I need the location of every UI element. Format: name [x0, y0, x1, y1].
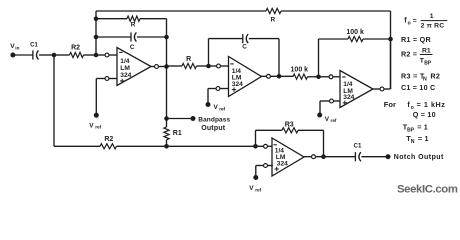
node U2 inverting tap: [206, 64, 211, 69]
op-amp U2 1/4 LM324: [229, 57, 262, 97]
svg-text:ref: ref: [95, 125, 101, 130]
U1 output terminal: [155, 65, 159, 69]
svg-text:ref: ref: [331, 118, 337, 123]
wire R3 row left: [256, 129, 283, 131]
resistor R (outer feedback): [266, 8, 281, 13]
wire stub U4 minus: [268, 145, 272, 147]
Vref terminal U2: [206, 102, 211, 107]
node input junction: [52, 53, 57, 58]
U2 output terminal: [267, 74, 271, 78]
wire U1 output: [151, 66, 154, 68]
U3 noninverting input terminal: [330, 99, 334, 103]
svg-text:Notch Output: Notch Output: [394, 154, 444, 161]
node C row right: [164, 35, 169, 40]
svg-text:o: o: [408, 20, 411, 26]
resistor R2 (summing): [100, 144, 117, 149]
svg-text:R1 = QR: R1 = QR: [401, 35, 431, 44]
wire U1out to R: [167, 65, 183, 67]
U3 output terminal: [380, 87, 384, 91]
node R1 bottom: [164, 144, 169, 149]
svg-text:= 1: = 1: [418, 134, 429, 143]
wire U3 plus to Vref: [320, 100, 329, 102]
wire U2 output: [262, 75, 267, 77]
svg-text:R: R: [131, 22, 136, 29]
op-amp U3 1/4 LM324: [340, 71, 373, 108]
wire left feedback vertical: [95, 11, 97, 56]
svg-text:100 k: 100 k: [291, 67, 309, 74]
svg-text:R: R: [186, 56, 191, 63]
wire stub U3 minus: [333, 76, 340, 78]
wire bottom rail left: [54, 145, 100, 147]
wire stub U1 plus: [109, 78, 117, 80]
wire R3 feedback up: [255, 130, 257, 146]
U2 inverting input terminal: [217, 64, 221, 68]
svg-text:C: C: [242, 43, 247, 50]
svg-text:BP: BP: [424, 60, 432, 66]
svg-text:100 k: 100 k: [346, 29, 364, 36]
capacitor C (U2 feedback): [242, 34, 244, 43]
svg-text:R2 =: R2 =: [401, 50, 417, 59]
node U3 inverting tap: [316, 75, 321, 80]
wire C1 to notch terminal: [361, 156, 386, 158]
node at input row: [94, 53, 99, 58]
svg-text:R1: R1: [422, 47, 431, 54]
wire R to U2 minus node: [197, 65, 209, 67]
svg-text:Q = 10: Q = 10: [413, 110, 436, 119]
wire 100k to U3 node: [308, 76, 319, 78]
resistor R1: [164, 127, 169, 140]
svg-text:BP: BP: [407, 127, 415, 133]
wire U1 feedback C row left: [96, 36, 131, 38]
svg-text:= 1 kHz: = 1 kHz: [417, 100, 446, 109]
U1 inverting input terminal: [105, 53, 109, 57]
U4 output terminal: [312, 155, 316, 159]
Notch output terminal: [386, 154, 391, 159]
resistor R2 (input): [70, 52, 84, 57]
wire input node down: [53, 55, 55, 146]
wire node to R2: [54, 54, 70, 56]
svg-text:ref: ref: [255, 187, 261, 192]
wire C1 to node: [39, 54, 54, 56]
resistor R (U1 feedback): [127, 16, 140, 21]
resistor R3: [282, 128, 298, 133]
svg-text:R: R: [270, 16, 275, 23]
wire U4 plus to Vref: [256, 165, 264, 167]
op-amp U1 1/4 LM324: [117, 48, 151, 86]
wire stub U2 plus: [220, 88, 228, 90]
wire bandpass tap: [167, 118, 192, 120]
resistor 100k (U3 feedback): [348, 36, 363, 41]
svg-text:N: N: [423, 77, 427, 83]
svg-text:C1: C1: [354, 143, 362, 150]
wire top feedback rail left segment: [96, 10, 266, 12]
resistor R (U2 input): [182, 63, 197, 68]
node bandpass tap: [164, 116, 169, 121]
wire U2 plus to Vref: [208, 88, 216, 90]
node R3 tap: [253, 144, 258, 149]
capacitor C1 (output): [354, 152, 356, 161]
wire U1 feedback C row right: [137, 36, 167, 38]
wire tap to U2 minus: [209, 65, 217, 67]
node U3 feedback junction: [388, 37, 393, 42]
Vref terminal U4: [253, 175, 258, 180]
wire node to U1 inverting input: [96, 54, 105, 56]
wire U3 output: [373, 88, 380, 90]
svg-text:Output: Output: [201, 125, 226, 132]
wire right vertical from top rail to U3 output: [390, 11, 392, 89]
U1 noninverting input terminal: [105, 77, 109, 81]
Bandpass output terminal: [191, 116, 196, 121]
wire U1 plus to Vref: [96, 78, 105, 80]
wire stub U3 plus: [334, 100, 340, 102]
node at C row left: [94, 35, 99, 40]
wire Vin to C1: [13, 54, 33, 56]
svg-text:C1 = 10 C: C1 = 10 C: [401, 83, 435, 92]
U4 inverting input terminal: [264, 144, 268, 148]
U2 noninverting input terminal: [216, 87, 220, 91]
wire U1 feedback R row left: [96, 18, 127, 20]
wire U3 feedback top right: [363, 38, 391, 40]
wire R3 row right: [298, 129, 324, 131]
svg-text:324: 324: [232, 81, 243, 88]
svg-text:R3: R3: [285, 122, 294, 129]
svg-text:1: 1: [430, 13, 434, 20]
wire U1 feedback R row right: [140, 18, 167, 20]
wire stub U4 plus: [268, 165, 273, 167]
svg-text:2 π RC: 2 π RC: [421, 23, 445, 30]
svg-text:V: V: [89, 122, 94, 129]
wire stub U2 minus: [221, 65, 229, 67]
wire U4 output: [304, 156, 311, 158]
wire top feedback rail right segment: [281, 10, 391, 12]
svg-text:SeekIC.com: SeekIC.com: [397, 183, 458, 195]
svg-text:324: 324: [120, 72, 131, 79]
wire U3 feedback top left: [319, 38, 349, 40]
svg-text:in: in: [15, 45, 19, 50]
wire U3 100k feedback up: [318, 39, 320, 77]
wire U2 cap feedback top right: [249, 38, 279, 40]
node U1 output junction: [164, 64, 169, 69]
U4 noninverting input terminal: [264, 164, 268, 168]
svg-text:For: For: [384, 100, 396, 109]
node at R row left: [94, 16, 99, 21]
svg-text:ref: ref: [219, 107, 225, 112]
wire R1 to bottom rail: [166, 140, 168, 147]
wire tap to U3 minus: [319, 76, 329, 78]
node U4 output junction: [321, 154, 326, 159]
svg-text:V: V: [249, 185, 254, 192]
svg-text:R2: R2: [104, 136, 113, 143]
capacitor C1 (input): [32, 50, 34, 59]
svg-text:C: C: [130, 44, 135, 51]
svg-text:=: =: [413, 17, 417, 24]
Vref terminal U3: [317, 113, 322, 118]
wire stub U1 minus: [109, 54, 117, 56]
capacitor C (U1 feedback): [130, 32, 132, 41]
wire mid vertical U1out to bandpass node: [166, 37, 168, 119]
node U2 output junction: [277, 74, 282, 79]
svg-text:R3 = T: R3 = T: [401, 71, 425, 80]
Vin terminal: [10, 53, 15, 58]
wire U2 cap feedback up: [208, 39, 210, 66]
svg-text:Bandpass: Bandpass: [198, 116, 230, 123]
svg-text:R2: R2: [71, 45, 80, 52]
svg-text:324: 324: [277, 161, 288, 168]
svg-text:V: V: [325, 116, 330, 123]
svg-text:R2: R2: [430, 71, 440, 80]
wire bandpass node to R1: [166, 119, 168, 128]
wire bottom rail mid: [117, 145, 167, 147]
svg-text:= 1: = 1: [417, 122, 428, 131]
op-amp U4 1/4 LM324: [272, 138, 304, 176]
svg-text:324: 324: [343, 94, 354, 101]
Vref terminal U1: [94, 113, 99, 118]
wire bottom rail right: [167, 145, 264, 147]
wire R2 to U1 input node: [84, 54, 97, 56]
U3 inverting input terminal: [329, 75, 333, 79]
svg-text:C1: C1: [30, 42, 38, 48]
wire U2 cap feedback top left: [209, 38, 244, 40]
resistor 100k (U3 input): [293, 74, 308, 79]
svg-text:R1: R1: [173, 130, 182, 137]
svg-text:V: V: [214, 104, 219, 111]
svg-text:N: N: [411, 139, 415, 145]
